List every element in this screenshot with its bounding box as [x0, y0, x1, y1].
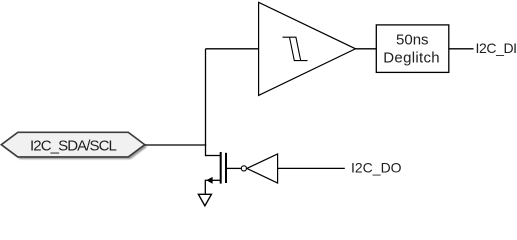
wire mosfet source lead with arrow	[205, 177, 220, 194]
transistor Q1 NMOS channel bar	[220, 152, 222, 184]
net label I2C_SDA/SCL (hexagonal pad symbol)	[1, 132, 147, 159]
inverter U2	[247, 154, 278, 183]
wire vertical riser at node (pad to schmitt input / mosfet drain)	[205, 49, 207, 156]
transistor Q1 gate bar	[225, 153, 227, 183]
svg-text:I2C_DO: I2C_DO	[351, 159, 402, 175]
wire gate lead from inverter to mosfet gate	[226, 167, 241, 169]
net label I2C_DO	[351, 159, 402, 175]
wire from deglitch box to I2C_DI label	[449, 48, 474, 50]
wire mosfet drain lead	[206, 155, 221, 157]
schmitt trigger buffer U1	[259, 2, 356, 95]
svg-text:I2C_SDA/SCL: I2C_SDA/SCL	[30, 137, 117, 154]
net label I2C_DI	[476, 40, 517, 56]
inverter U2 output bubble	[241, 166, 246, 171]
wire from I2C_DO label to inverter input	[278, 167, 345, 169]
wire from pad to junction riser	[145, 144, 206, 146]
50ns deglitch filter block	[376, 25, 449, 73]
hysteresis symbol inside schmitt trigger	[283, 37, 301, 60]
svg-text:Deglitch: Deglitch	[383, 50, 440, 67]
svg-text:50ns: 50ns	[396, 32, 429, 49]
wire from riser to schmitt trigger input	[206, 48, 260, 50]
wire from schmitt output to deglitch box	[356, 48, 377, 50]
svg-text:I2C_DI: I2C_DI	[476, 40, 517, 56]
ground	[198, 194, 211, 206]
